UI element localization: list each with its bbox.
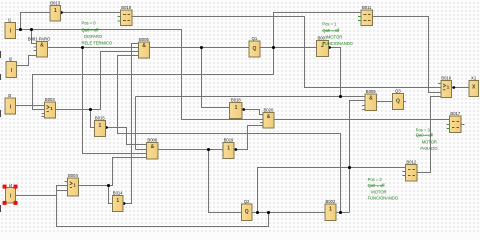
junction on y167 net at B009 riser [348,166,351,169]
NOT gate B002 [325,204,336,220]
svg-text:FUNCIONANDO: FUNCIONANDO [322,41,352,46]
green stub: B010.in2 [118,16,121,18]
svg-text:FUNCIONANDO: FUNCIONANDO [368,196,398,201]
output pin dot B016 [452,86,455,89]
junction on bottom wire at y167 riser [256,211,259,214]
svg-text:Q2: Q2 [244,199,250,204]
wire: B014 output long riser to B005.in1 [123,44,138,204]
wire: B013 output to B010.in1 [61,12,121,14]
svg-text:1: 1 [99,123,102,129]
wire: riser from I1 net up to B013 input [21,13,51,30]
stub: B003.in4 [41,116,44,118]
green stub: B012.in2 [402,171,405,173]
svg-text:PARADO.: PARADO. [420,146,438,151]
svg-text:Qa0 = off: Qa0 = off [322,28,340,33]
wire: I1 output net (to B013 riser, B001 riser, long drop to B020.in2) [16,30,263,120]
svg-text:B001 PARO: B001 PARO [28,36,51,41]
AND gate B020 [263,112,274,128]
svg-text:B017: B017 [450,111,460,116]
svg-text:&: & [369,95,373,101]
wire: vertical net branch to B011.in1 [274,13,362,75]
wire: B007 output down to y96 net [328,48,340,97]
svg-text:B013: B013 [50,1,60,6]
comment group: MOTOR FUNCIONANDO (Pos 2) [368,177,398,201]
wire: riser through y167 junction up to B009.in2 [350,101,366,213]
stub: B001.in2 [33,46,36,48]
svg-text:RELE TERMICO: RELE TERMICO [82,40,113,45]
svg-text:1: 1 [50,106,53,112]
svg-text:1: 1 [447,85,450,91]
svg-text:1: 1 [235,105,238,111]
OR gate B016 [441,80,452,97]
wire: B002 output riser to y133 net and C-run to B005.in4 [118,56,341,213]
wire: B001 output to B005.in2 [47,47,138,49]
svg-text:B014: B014 [113,191,123,196]
junction at B002 output [339,211,342,214]
stub: B009.in3 [362,105,365,107]
svg-text:B003: B003 [45,97,55,102]
wire: I2 output to B001.in4 [17,56,37,66]
svg-text:1: 1 [73,182,76,188]
stub: B001.in3 [33,50,36,52]
green stub: B017.in2 [447,124,450,126]
OR gate B003 [44,102,55,118]
latching relay B017 [450,116,461,132]
output pin dot B014 [123,202,126,205]
svg-text:Qa0 = off: Qa0 = off [82,27,100,32]
icon dashes B017 [452,122,459,128]
green stub: B011.in3 [358,20,361,22]
selection handles on I4 [3,185,18,205]
wire: B011 output run down to B016.in3 [373,17,441,93]
symbol B004 ">=1" [70,182,73,188]
svg-text:MOTOR: MOTOR [371,189,386,194]
AND gate B006 [147,142,158,159]
svg-text:B011: B011 [362,5,372,10]
wire: riser from I1 net down to B001.in1 [32,30,37,44]
svg-text:B015: B015 [95,115,105,120]
AND gate B009 [365,94,377,111]
output pin dot B018 [242,108,245,111]
NOT gate B013 [50,6,61,22]
output pin dot B015 [105,126,108,129]
NOT gate B015 [94,120,105,136]
wire: B006 output to B019.in1 [158,149,223,151]
junction on B006 output at Q2 branch [207,148,210,151]
OR-gate ">=1" symbols [47,84,450,189]
icon dashes B012 [408,170,415,176]
input I3 [5,98,16,114]
latching relay dashes (RS icon) [123,15,459,176]
latching relay B010 [121,10,133,26]
svg-text:B020: B020 [264,107,274,112]
junction on I1 net at B001 riser [30,28,33,31]
wire: bottom return wire to B004.in2 [57,186,269,227]
svg-text:Q1: Q1 [252,36,258,41]
svg-text:Q: Q [253,46,257,52]
edge tick marks at canvas left border [0,51,2,212]
open connector X1 [469,80,479,96]
svg-text:1: 1 [116,198,119,204]
svg-text:B010: B010 [121,5,131,10]
wire: B019 output riser to B020.in4 [236,126,263,150]
NOT gate B014 [112,196,123,212]
svg-text:X1: X1 [471,75,477,80]
wire: B018 output to B020.in1 [242,110,263,115]
comment group: MOTOR PARADO (Pos 3) [416,128,439,152]
wire: B002 output segment [336,212,350,214]
junction on B005 output at B018 riser [200,46,203,49]
wire: B001 output branch down to B006.in3 [83,48,147,154]
output Q2 [241,204,252,220]
svg-text:1: 1 [54,8,57,14]
icon pulse mark B007 [321,43,325,47]
svg-text:B018: B018 [231,98,241,103]
latching relay B011 [361,10,373,26]
stub: B004.in1 [64,181,67,183]
symbol B003 ">=1" [47,105,50,111]
wire: B004 output branch down to B014.in1 [109,186,113,204]
svg-text:Pos = 2: Pos = 2 [368,177,383,182]
svg-text:&: & [40,43,44,49]
icon dashes B011 [364,15,371,21]
output pin dot B013 [60,11,63,14]
wire: y96 net horizontal to B009.in1 and riser to B006.in2 [136,96,366,98]
icon dashes B010 [123,15,130,21]
comment group: MOTOR FUNCIONANDO (Pos 1) [322,21,352,46]
green stub: B017.in3 [447,128,450,130]
green stub: B011.in2 [358,16,361,18]
wire: I3 output to B003.in1 [16,105,45,107]
svg-text:B002: B002 [326,199,336,204]
wire: B015 output to B006.in1 [105,128,146,145]
pulse relay B007 [316,41,328,57]
svg-text:B009: B009 [366,89,376,94]
AND gate B001 PARO [36,41,47,57]
wire: B012 output riser to B016.in4 [417,97,441,173]
svg-text:Q3: Q3 [395,89,401,94]
svg-text:&: & [142,43,146,49]
AND gate B005 [138,42,149,58]
output pin dot B019 [234,148,237,151]
stub: B003.in3 [41,113,44,115]
svg-text:B004: B004 [68,173,78,178]
junction on B004 output at B014 branch [107,184,110,187]
wire: I4 output joining riser [16,195,57,197]
svg-text:1: 1 [227,145,230,151]
comment group: DISPARO RELE TERMICO [82,20,113,45]
svg-text:B019: B019 [224,138,234,143]
svg-text:B012: B012 [406,160,416,165]
latching relay B012 [405,165,417,181]
wire: B004 output to B006.in4 riser [78,158,146,186]
wire: B005 output row to Q1 and B007.in1 [149,47,316,49]
svg-text:Pos = 1: Pos = 1 [322,21,337,26]
wire: B009 output to Q3 input [377,101,393,103]
junction on bottom wire at return riser [267,211,270,214]
svg-text:MOTOR: MOTOR [422,139,437,144]
output pin dot B007 [328,46,331,49]
svg-text:B006: B006 [147,137,157,142]
wire: B017 output stub [461,124,465,126]
input I2 [6,62,17,78]
junction on y96 net at B007 riser [339,95,342,98]
wire: B003 output to B005.in3 [55,52,138,110]
wire: stub from return riser to B004.in3 [57,190,68,192]
svg-text:Qa0 = off: Qa0 = off [416,133,434,138]
green stub: B010.in3 [118,20,121,22]
input I4 (selected) [6,188,16,204]
symbol B016 ">=1" [443,84,446,90]
OR gate B004 [67,178,78,196]
stub: B016.in1 [438,83,441,85]
svg-text:&: & [151,144,155,150]
wire: B006 output branch down to Q2 and B002.in1 [209,150,326,213]
wire: B003 output branch down to B015.in1 [91,110,95,128]
stub: B009.in4 [362,109,365,111]
wire: riser from bottom net up to y167 net, to B012.in1 [258,168,406,213]
wire: B016 output to X1 input [452,87,469,89]
svg-text:MOTOR: MOTOR [327,35,342,40]
stub: B020.in3 [260,122,263,124]
junction on B003 output at B015 branch [89,108,92,111]
junction on I1 net at B013 riser [19,28,22,31]
wire: Q3 right stub [403,101,406,103]
wire: B020 output long run to B017.in1 [274,119,450,121]
junction on B001 output at B006 branch [81,46,84,49]
NOT gate B018 [230,103,242,119]
NOT gate B019 [223,143,234,159]
wire: B010 output long run to B016.in2 [132,17,441,88]
wire: mid horizontal net y74 to B003.in2 [33,75,274,110]
svg-text:Qa0 = off: Qa0 = off [368,183,386,188]
junction on B005 output at B011 riser [272,46,275,49]
svg-text:B005: B005 [139,37,149,42]
green stub: B012.in3 [402,175,405,177]
svg-text:B016: B016 [441,75,451,80]
svg-text:Q: Q [396,99,400,105]
output Q3 [393,94,404,110]
wire: riser from B005 output net down to B018.in1 [202,48,230,108]
output Q1 [249,41,260,57]
svg-text:DISPARO: DISPARO [84,34,102,39]
svg-text:Q: Q [245,209,249,215]
svg-text:Pos = 0: Pos = 0 [82,20,97,25]
input I1 [5,22,16,38]
svg-text:1: 1 [329,206,332,212]
svg-text:&: & [267,114,271,120]
